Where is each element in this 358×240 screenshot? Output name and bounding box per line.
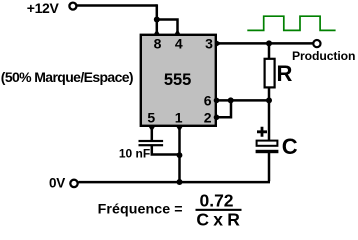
svg-text:Fréquence =: Fréquence = bbox=[98, 201, 183, 217]
svg-text:C x R: C x R bbox=[196, 210, 240, 229]
svg-text:10 nF: 10 nF bbox=[119, 146, 150, 160]
svg-text:6: 6 bbox=[204, 92, 212, 108]
svg-text:2: 2 bbox=[204, 110, 212, 126]
svg-text:1: 1 bbox=[175, 110, 183, 126]
svg-text:C: C bbox=[282, 134, 298, 159]
svg-text:+12V: +12V bbox=[27, 0, 60, 16]
svg-text:555: 555 bbox=[164, 71, 192, 89]
svg-text:(50% Marque/Espace): (50% Marque/Espace) bbox=[1, 69, 133, 85]
svg-text:4: 4 bbox=[175, 35, 183, 51]
svg-text:0V: 0V bbox=[49, 176, 65, 191]
svg-text:0.72: 0.72 bbox=[199, 190, 233, 210]
svg-text:3: 3 bbox=[205, 35, 213, 51]
svg-text:8: 8 bbox=[154, 35, 162, 51]
svg-text:R: R bbox=[277, 61, 293, 86]
svg-text:5: 5 bbox=[147, 110, 155, 126]
svg-text:Production: Production bbox=[292, 49, 355, 63]
